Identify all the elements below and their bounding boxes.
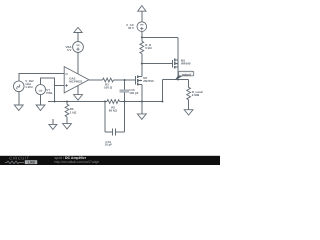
svg-text:CIRCUIT: CIRCUIT	[9, 156, 29, 161]
svg-text:2 MΩ: 2 MΩ	[192, 93, 200, 97]
svg-text:MCP6021: MCP6021	[69, 79, 82, 83]
svg-text:IRF540: IRF540	[181, 61, 191, 65]
svg-text:100 pF: 100 pF	[129, 91, 139, 95]
svg-text:30 V: 30 V	[128, 26, 134, 30]
svg-text:1 kΩ: 1 kΩ	[70, 110, 77, 114]
svg-text:2N7000: 2N7000	[143, 79, 154, 83]
svg-text:output: output	[182, 72, 191, 76]
svg-text:1 kHz: 1 kHz	[25, 85, 33, 89]
svg-text:CM: CM	[39, 89, 43, 92]
svg-text:100 Ω: 100 Ω	[104, 86, 113, 90]
svg-text:5 kΩ: 5 kΩ	[145, 46, 152, 50]
svg-text:10 µF: 10 µF	[105, 143, 113, 147]
svg-text:http://circuitlab.com/c/e57a9g: http://circuitlab.com/c/e57a9gh	[55, 160, 100, 164]
svg-text:99 kΩ: 99 kΩ	[109, 109, 118, 113]
svg-text:LAB: LAB	[28, 161, 36, 165]
svg-text:5 V: 5 V	[67, 48, 71, 52]
svg-text:PWL: PWL	[46, 91, 53, 95]
